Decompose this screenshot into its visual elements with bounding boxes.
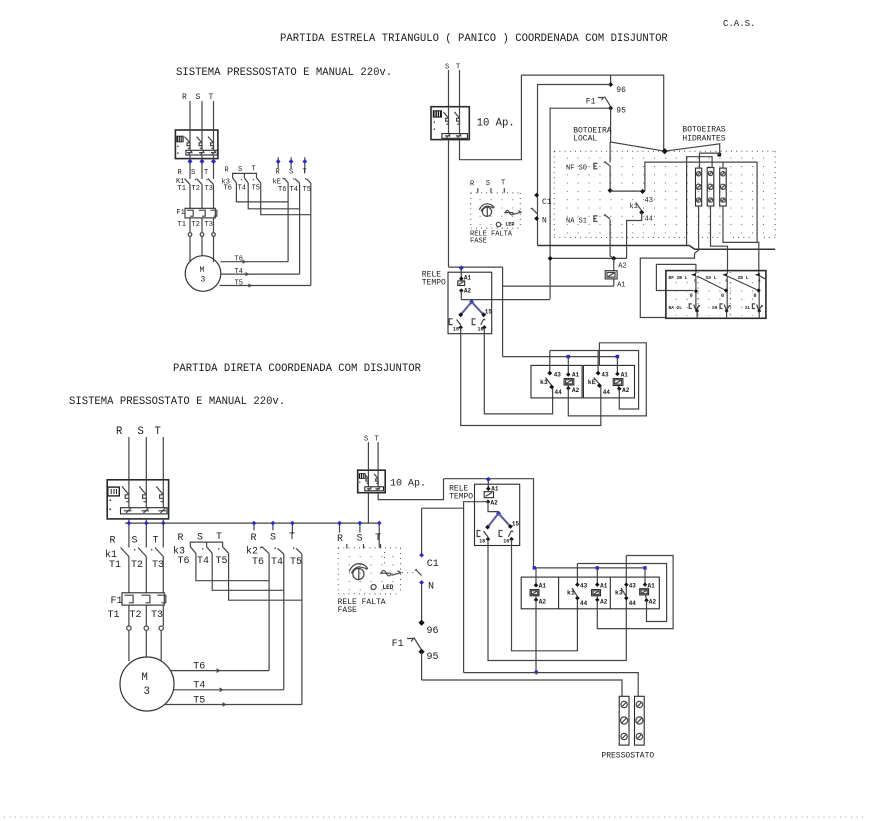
top feeder line bottom control — [444, 479, 534, 568]
coil K2 bottom — [592, 568, 608, 606]
svg-text:A2: A2 — [618, 263, 626, 271]
contact K3 43-44 bottom — [615, 556, 636, 661]
wire pill2 feed loop — [687, 157, 713, 246]
wire timer 18 to K3-44 bottom — [488, 539, 627, 660]
wire pill3 stub — [722, 162, 724, 168]
wire loop to detail col1 top — [656, 264, 696, 290]
wire timer 18 to KE-44 — [461, 327, 601, 425]
svg-text:TEMPO: TEMPO — [422, 279, 446, 288]
svg-text:T3: T3 — [205, 221, 213, 229]
wire K1-A2 to pill2 line — [535, 600, 537, 673]
svg-text:T4: T4 — [235, 268, 243, 276]
selector wire C1 from 96 line — [538, 85, 611, 246]
K2 bottom outputs — [269, 554, 302, 705]
svg-text:18: 18 — [479, 539, 485, 545]
wire 43 tie line — [550, 351, 639, 410]
svg-text:T1: T1 — [108, 610, 120, 621]
wire 95 branch to node A2 via 550 — [550, 108, 611, 299]
wire K1 coil A1 to feeder — [503, 285, 614, 287]
svg-text:LED: LED — [505, 222, 514, 228]
dashed link to selector — [402, 572, 417, 574]
wire S to breaker — [448, 70, 450, 107]
K3 output wires to motor lines — [236, 183, 310, 215]
circuit breaker 2-pole 10A — [431, 107, 469, 140]
svg-text:M: M — [142, 672, 148, 684]
contactor coil K1 top — [605, 258, 626, 289]
bottom page dotted edge — [4, 816, 866, 818]
wire V feed diagonals to diamond node — [611, 142, 720, 155]
wire 43 bus line bottom — [577, 564, 666, 622]
svg-text:F1: F1 — [111, 596, 123, 607]
svg-text:PRESSOSTATO: PRESSOSTATO — [601, 752, 654, 761]
wires F1 to motor with terminal circles — [188, 218, 215, 262]
svg-text:15: 15 — [512, 521, 520, 528]
svg-text:A2: A2 — [464, 288, 472, 295]
KE output wires down to motor terminal lines — [288, 183, 311, 285]
svg-text:43: 43 — [629, 583, 637, 590]
wire square to pill1 — [700, 153, 720, 168]
motor M3 bottom — [120, 657, 174, 711]
svg-text:43: 43 — [601, 372, 609, 379]
svg-text:T6: T6 — [224, 185, 232, 193]
svg-text:S: S — [196, 93, 201, 102]
svg-text:2B L: 2B L — [738, 275, 749, 281]
svg-text:15: 15 — [485, 309, 493, 316]
motor M3 top — [185, 256, 221, 292]
terminal N — [534, 216, 539, 221]
svg-text:S: S — [357, 534, 363, 545]
pressostato pill 1 — [619, 696, 629, 745]
motor terminal line T6 — [221, 256, 288, 264]
svg-text:F1: F1 — [586, 98, 596, 107]
svg-text:T6: T6 — [252, 557, 264, 568]
wire K2-A2 outer loop — [597, 556, 673, 629]
svg-text:F1: F1 — [392, 639, 404, 650]
contactor K3 bottom contacts — [173, 546, 229, 568]
node A2 line — [550, 257, 626, 259]
svg-text:A1: A1 — [572, 372, 580, 379]
hidrante button pill 3 — [720, 168, 727, 206]
svg-text:T5: T5 — [252, 185, 260, 193]
svg-text:T5: T5 — [216, 556, 228, 567]
svg-text:LOCAL: LOCAL — [573, 135, 597, 144]
rele falta fase top LED — [496, 222, 500, 226]
svg-text:R: R — [182, 93, 187, 102]
coil feed rail bottom — [534, 567, 646, 569]
wire phase S down to breaker — [201, 101, 203, 130]
junction dots below breaker — [187, 159, 192, 164]
circuit breaker 2-pole bottom — [358, 470, 386, 493]
svg-text:T4: T4 — [271, 557, 283, 568]
svg-text:C.A.S.: C.A.S. — [723, 19, 755, 29]
selector column C1/N bottom — [415, 508, 439, 620]
motor line T6 bottom — [170, 662, 269, 673]
wire K3-A2 outer loop — [568, 343, 646, 416]
svg-text:FASE: FASE — [470, 238, 487, 246]
svg-text:T2: T2 — [130, 610, 142, 621]
svg-text:PARTIDA DIRETA COORDENADA COM: PARTIDA DIRETA COORDENADA COM DISJUNTOR — [173, 363, 422, 375]
svg-text:S: S — [289, 169, 293, 177]
svg-text:96: 96 — [427, 626, 439, 637]
motor terminal line T4 — [221, 268, 300, 276]
svg-text:S: S — [132, 536, 138, 547]
LED bottom — [371, 585, 376, 590]
svg-text:S: S — [138, 426, 144, 438]
svg-text:A2: A2 — [491, 500, 499, 507]
wire top loop to K1-43 — [645, 162, 757, 242]
svg-text:96: 96 — [616, 86, 626, 95]
svg-text:S: S — [486, 180, 490, 188]
svg-text:R: R — [116, 426, 123, 438]
svg-text:S: S — [364, 436, 368, 444]
big dotted enclosure top — [554, 151, 775, 237]
timer relay RELE TEMPO top — [422, 268, 550, 334]
relay box K3 top — [531, 351, 582, 398]
svg-text:A1: A1 — [600, 583, 608, 590]
circuit breaker bottom 3-pole — [107, 480, 168, 519]
svg-text:NF S0: NF S0 — [566, 165, 587, 173]
wire breaker S-pole down to rele tempo — [448, 140, 450, 268]
svg-text:N: N — [428, 582, 434, 593]
svg-text:T: T — [209, 93, 214, 102]
svg-text:NA S1: NA S1 — [566, 218, 587, 226]
terminal 95 — [608, 106, 613, 111]
relay box KE top — [583, 351, 634, 398]
wire T to breaker — [459, 70, 461, 107]
coil K1 bottom — [530, 568, 546, 606]
svg-text:SISTEMA PRESSOSTATO E MANUAL 2: SISTEMA PRESSOSTATO E MANUAL 220v. — [176, 67, 392, 79]
svg-text:T6: T6 — [178, 556, 190, 567]
circuit breaker Q1 3-pole box — [175, 130, 218, 159]
svg-text:M: M — [200, 266, 205, 275]
svg-text:T3: T3 — [205, 185, 213, 193]
svg-text:R: R — [251, 533, 257, 544]
contactor K1 bottom contacts — [105, 548, 164, 593]
node S0 out diamond — [608, 188, 613, 193]
svg-text:44: 44 — [645, 216, 653, 224]
svg-text:0: 0 — [690, 293, 693, 299]
svg-text:NF 2B L: NF 2B L — [669, 275, 688, 281]
svg-text:95: 95 — [427, 652, 439, 663]
contactor K2 feed dots — [251, 521, 296, 544]
motor terminal line T5 — [220, 280, 311, 288]
svg-text:T6: T6 — [278, 186, 286, 194]
svg-text:LED: LED — [383, 584, 394, 591]
svg-text:44: 44 — [629, 600, 637, 607]
contactor K1 main contacts — [176, 163, 214, 208]
svg-text:R: R — [110, 536, 116, 547]
svg-text:T5: T5 — [290, 557, 302, 568]
svg-text:43: 43 — [580, 583, 588, 590]
meter icon bottom — [349, 564, 368, 580]
svg-text:A1: A1 — [617, 282, 625, 290]
breaker out wires bottom — [367, 493, 369, 523]
svg-text:C1: C1 — [427, 559, 439, 570]
control return thick line — [537, 246, 775, 250]
rele falta fase top output contact — [504, 210, 521, 214]
svg-text:T: T — [375, 533, 381, 544]
svg-text:A2: A2 — [572, 387, 580, 394]
wire timer 16 to K1-44 bottom — [512, 539, 578, 651]
svg-text:T: T — [303, 169, 307, 177]
svg-text:C1: C1 — [542, 198, 552, 207]
svg-text:44: 44 — [580, 600, 588, 607]
wire pill2 out to detail box col2 — [711, 206, 728, 274]
svg-text:NA 2L: NA 2L — [669, 305, 683, 311]
junction square hidrantes — [718, 153, 722, 157]
svg-text:R: R — [178, 533, 184, 544]
svg-text:43: 43 — [645, 197, 653, 205]
svg-text:S9: S9 — [712, 305, 718, 311]
svg-text:k3: k3 — [540, 379, 548, 386]
relay row box bottom — [521, 577, 659, 609]
svg-text:95: 95 — [616, 107, 626, 116]
wire phase R down to breaker — [189, 101, 191, 130]
svg-text:44: 44 — [555, 389, 563, 396]
terminal 96 — [608, 82, 613, 87]
svg-text:T3: T3 — [151, 610, 163, 621]
wire 95 to pressostato pill1 — [422, 680, 622, 696]
svg-text:T: T — [289, 532, 295, 543]
svg-text:A1: A1 — [539, 583, 547, 590]
K3 contacts — [222, 178, 261, 193]
wire pill3 out to detail box col3 — [723, 206, 759, 274]
svg-text:T2: T2 — [192, 221, 200, 229]
svg-text:HIDRANTES: HIDRANTES — [682, 135, 725, 144]
svg-text:N: N — [542, 217, 547, 226]
svg-text:43: 43 — [554, 372, 562, 379]
svg-text:18: 18 — [453, 327, 459, 333]
rele falta fase top meter icon — [479, 204, 494, 217]
selector blade C1-N — [531, 208, 537, 214]
wire S0 node to K1-43 — [610, 190, 645, 192]
station 1 — [669, 273, 727, 318]
svg-text:0: 0 — [754, 293, 757, 299]
coil feed rail top — [503, 356, 618, 358]
motor line T5 bottom — [165, 696, 302, 707]
wire breaker T-pole to top rail — [460, 75, 664, 160]
phase wires to breaker — [128, 437, 130, 480]
remote stations detail box — [666, 271, 766, 319]
svg-text:T: T — [216, 532, 222, 543]
motor line T4 bottom — [173, 681, 283, 692]
feeder from breaker S-pole — [449, 267, 503, 357]
svg-text:F1: F1 — [176, 209, 184, 217]
svg-text:T: T — [204, 169, 208, 177]
svg-text:A2: A2 — [539, 599, 547, 606]
svg-text:2L: 2L — [745, 305, 751, 311]
svg-text:FASE: FASE — [338, 606, 357, 615]
svg-text:T1: T1 — [178, 221, 186, 229]
contactor KE contacts — [273, 178, 311, 194]
wire phase T down to breaker — [213, 101, 215, 130]
svg-text:S: S — [191, 169, 195, 177]
svg-text:BOTOEIRAS: BOTOEIRAS — [682, 126, 725, 135]
svg-text:T2: T2 — [192, 185, 200, 193]
stub to F1 96 — [610, 75, 612, 84]
terminal C1 — [534, 193, 539, 198]
svg-text:16: 16 — [503, 539, 509, 545]
wire timer A2 link — [464, 502, 488, 673]
svg-text:T: T — [501, 179, 505, 187]
svg-text:3: 3 — [201, 276, 206, 285]
svg-text:k2: k2 — [246, 546, 258, 558]
station 3 — [738, 273, 766, 318]
thermal overload F1 bottom — [108, 593, 166, 621]
K3 bracket bottom — [190, 542, 222, 547]
wire K1-44 to node A2 — [627, 212, 642, 258]
svg-text:T5: T5 — [235, 280, 243, 288]
svg-text:T: T — [252, 166, 256, 174]
contact K1 43-44 bottom — [567, 564, 588, 608]
K3 bracket — [233, 173, 257, 178]
svg-text:T4: T4 — [197, 556, 209, 567]
rele falta fase bottom feed dots — [337, 521, 382, 548]
contact K1 aux 43-44 — [630, 189, 653, 224]
svg-text:TEMPO: TEMPO — [449, 493, 473, 502]
F1 96/95 bottom — [392, 620, 439, 680]
wire 95 to hook node — [610, 108, 612, 142]
svg-text:0: 0 — [721, 293, 724, 299]
svg-text:R: R — [337, 534, 343, 545]
svg-text:S: S — [270, 533, 276, 544]
svg-text:10 Ap.: 10 Ap. — [477, 118, 515, 130]
wire pill1 out to detail box bottom — [640, 206, 698, 318]
svg-text:T3: T3 — [152, 560, 164, 571]
svg-text:10 Ap.: 10 Ap. — [390, 479, 426, 490]
rele falta fase top dotted box — [471, 193, 521, 228]
svg-text:T: T — [155, 426, 161, 438]
svg-text:A1: A1 — [621, 372, 629, 379]
svg-text:S0 L: S0 L — [706, 275, 717, 281]
junction diamond local — [662, 148, 668, 154]
svg-text:PARTIDA ESTRELA TRIANGULO ( PA: PARTIDA ESTRELA TRIANGULO ( PANICO ) COO… — [280, 33, 668, 45]
svg-text:T1: T1 — [109, 560, 121, 571]
K3 bottom outputs — [196, 553, 302, 600]
timer relay bottom box — [475, 479, 520, 545]
svg-text:A2: A2 — [649, 599, 657, 606]
coil KE bottom — [640, 568, 657, 606]
junction at rele tempo A1 — [459, 265, 464, 270]
pushbutton S1 NA — [566, 215, 614, 259]
svg-text:T: T — [153, 536, 159, 547]
svg-text:T2: T2 — [131, 560, 143, 571]
contactor K2 bottom contacts — [246, 546, 302, 569]
thermal overload F1 — [176, 208, 216, 229]
svg-text:kE: kE — [588, 379, 596, 386]
wire C1 top link — [422, 507, 464, 509]
hidrante button pill 1 — [696, 168, 702, 206]
svg-text:44: 44 — [603, 389, 611, 396]
dot grid inside enclosure — [557, 155, 773, 235]
svg-text:k3: k3 — [615, 590, 623, 597]
F1 aux NC contact 95-96 — [586, 97, 611, 107]
wire timer 16 to K3-44 — [484, 327, 552, 414]
station 2 — [706, 273, 759, 318]
svg-text:T4: T4 — [238, 185, 246, 193]
svg-text:A2: A2 — [622, 387, 630, 394]
rele falta fase bottom dotted box — [338, 548, 400, 594]
output contact sine bottom — [380, 570, 401, 575]
svg-text:T4: T4 — [290, 186, 298, 194]
svg-text:A2: A2 — [600, 599, 608, 606]
svg-text:T1: T1 — [178, 185, 186, 193]
distribution rail bottom — [125, 522, 381, 524]
svg-text:3: 3 — [144, 686, 150, 698]
contactor KE group feed dots — [276, 157, 308, 176]
pressostato pill 2 — [635, 696, 645, 745]
pushbutton S0 NC — [566, 142, 610, 191]
svg-text:T5: T5 — [303, 186, 311, 194]
svg-text:SISTEMA PRESSOSTATO E MANUAL 2: SISTEMA PRESSOSTATO E MANUAL 220v. — [69, 396, 285, 408]
breaker pole contacts — [185, 130, 217, 161]
wires F1 to motor bottom — [127, 605, 164, 661]
hidrante button pill 2 — [707, 168, 714, 206]
